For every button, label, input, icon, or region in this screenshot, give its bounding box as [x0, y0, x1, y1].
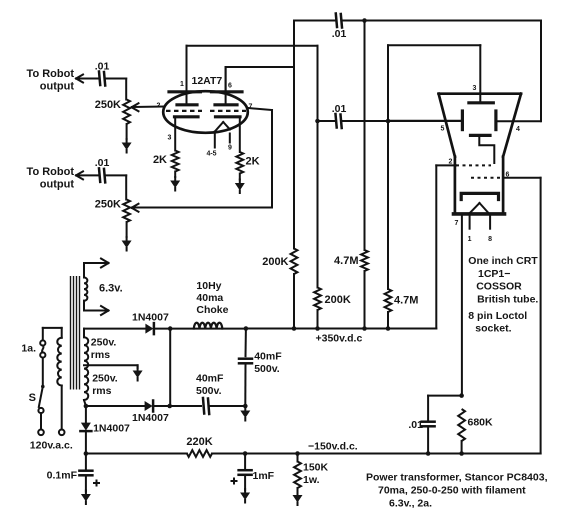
svg-text:1w.: 1w. — [303, 474, 320, 486]
wire junction to cap branch — [428, 396, 462, 422]
wire output to cap (upper) — [78, 78, 98, 80]
pin 6 label — [228, 83, 232, 90]
grid right triode (dashed) — [210, 110, 246, 112]
label 1a. (fuse) — [21, 343, 36, 355]
svg-text:200K: 200K — [325, 294, 351, 306]
svg-text:8 pin Loctol: 8 pin Loctol — [468, 310, 527, 322]
svg-text:3: 3 — [473, 85, 477, 92]
resistor 200K (x=317.5) — [314, 288, 321, 311]
label 4.7M (right of x388) — [394, 295, 418, 307]
svg-text:1a.: 1a. — [21, 343, 36, 355]
svg-text:4-5: 4-5 — [206, 151, 216, 158]
svg-text:250v.: 250v. — [92, 373, 118, 385]
svg-text:40ma: 40ma — [196, 292, 223, 304]
svg-text:0.1mF: 0.1mF — [47, 470, 78, 482]
label 1CP1- — [478, 268, 510, 280]
label 680K — [468, 417, 494, 429]
CRT pin 1 stub — [469, 216, 471, 229]
resistor 150K 1w — [294, 454, 301, 489]
svg-text:1CP1−: 1CP1− — [478, 268, 510, 280]
wire top bus y=20.5 — [294, 20, 541, 22]
wire cap to -150 rail — [427, 427, 429, 454]
svg-text:680K: 680K — [468, 417, 494, 429]
CRT first anode — [471, 135, 495, 163]
svg-text:4: 4 — [516, 126, 520, 133]
label .01 (top) — [332, 28, 347, 40]
arrow 6.3v bottom — [101, 306, 109, 315]
label 220K — [186, 436, 212, 448]
label 120v.a.c. — [30, 440, 73, 452]
svg-text:S: S — [29, 392, 36, 404]
pin 4-5 label — [206, 151, 216, 158]
svg-text:−150v.d.c.: −150v.d.c. — [308, 441, 358, 453]
label .01 (mid) — [332, 103, 347, 115]
svg-text:To Robot: To Robot — [27, 166, 75, 178]
pin 7 label — [249, 104, 253, 111]
note power transformer — [366, 472, 548, 510]
wire diode to choke — [155, 328, 194, 330]
wire 680K to rail — [461, 441, 463, 454]
CRT heater filament — [469, 203, 490, 214]
node junction (461.6,395.6) — [459, 393, 464, 398]
fuse 1a — [40, 328, 45, 358]
node junction (364.5,20.5) — [362, 18, 367, 23]
transformer primary winding — [57, 338, 61, 386]
diode 1N4007 third — [80, 406, 91, 431]
pin 2 label — [157, 103, 161, 110]
diode 1N4007 top — [145, 323, 154, 334]
cathode right triode — [216, 117, 241, 152]
wire vertical x=388 — [387, 45, 389, 289]
ground (filter common) — [240, 407, 250, 421]
svg-text:output: output — [40, 81, 75, 93]
label 2K right — [246, 156, 260, 168]
label 1N4007 (top diode) — [132, 312, 169, 324]
label 4.7M (left of x364) — [334, 255, 358, 267]
wire primary bottom — [61, 386, 63, 430]
label 2K left — [153, 154, 167, 166]
svg-text:2K: 2K — [246, 156, 260, 168]
label -150v.d.c. — [308, 441, 358, 453]
node junction (85.9,406) — [84, 404, 89, 409]
label .01 (lower left) — [95, 157, 110, 169]
wire 4.7M to +350 bus — [364, 271, 366, 329]
resistor 2K (right cathode) — [236, 152, 243, 174]
node junction (245.3,406) — [243, 404, 248, 409]
plate lead right triode — [215, 67, 237, 105]
arrow 6.3v top — [101, 259, 109, 268]
svg-text:.01: .01 — [332, 28, 347, 40]
svg-text:12AT7: 12AT7 — [192, 75, 223, 87]
CRT pin 2 label — [449, 159, 453, 166]
capacitor 40mF 500v (input filter) — [203, 398, 209, 414]
node bus junction x=317.5 — [315, 326, 320, 331]
label 8 pin Loctol — [468, 310, 527, 322]
wiper arrow (lower pot) — [132, 204, 139, 212]
svg-text:200K: 200K — [262, 256, 288, 268]
resistor 4.7M (x=388) — [385, 289, 392, 312]
wire 6.3v bottom lead — [84, 301, 106, 311]
wire -150 v.d.c. rail — [86, 453, 541, 455]
resistor 680K — [458, 409, 465, 441]
wire choke to bus — [222, 328, 246, 330]
ground (1mF) — [240, 489, 250, 503]
label 1N4007 (third diode) — [93, 423, 130, 435]
wire filter cap vertical x=245.5 — [245, 329, 247, 357]
wire wiper to grid pin 7 net — [133, 108, 272, 208]
wire 1mF to ground — [244, 475, 246, 490]
pin 9 label — [228, 145, 232, 152]
node junction (85.9,453.5) — [84, 451, 89, 456]
potentiometer 250K (upper) — [123, 100, 130, 125]
svg-text:1: 1 — [180, 81, 184, 88]
svg-text:output: output — [40, 179, 75, 191]
CRT pin 3 label — [473, 85, 477, 92]
label 1mF — [253, 470, 275, 482]
CRT pin 7 label — [455, 220, 459, 227]
label 10Hy 40ma Choke — [196, 280, 228, 316]
CRT grid pin 2 (dashed) — [456, 164, 491, 166]
CRT pin 5 label — [441, 126, 445, 133]
svg-text:.01: .01 — [95, 157, 110, 169]
svg-text:4.7M: 4.7M — [334, 255, 358, 267]
svg-text:One inch CRT: One inch CRT — [468, 255, 538, 267]
wire wiper to grid pin 2 — [133, 106, 164, 109]
svg-text:70ma, 250-0-250 with filament: 70ma, 250-0-250 with filament — [378, 485, 526, 497]
label 200K (right) — [325, 294, 351, 306]
wire 2K left to ground — [174, 172, 176, 178]
svg-text:socket.: socket. — [475, 323, 511, 335]
wire pot bottom (upper) — [126, 124, 128, 139]
label 6.3v. — [99, 283, 123, 295]
plate lead left triode — [177, 46, 197, 105]
label 250K (upper) — [95, 99, 121, 111]
wire fuse to switch — [42, 358, 44, 385]
potentiometer 250K (lower) — [123, 200, 130, 223]
label 200K (left) — [262, 256, 288, 268]
wire bottom diode line — [86, 405, 145, 407]
wire pot bottom (lower) — [126, 222, 128, 237]
label 1N4007 (bottom diode) — [132, 412, 169, 424]
wire left plate to node (y=45.7) — [187, 45, 318, 47]
svg-text:1: 1 — [468, 236, 472, 243]
transformer core — [71, 276, 80, 390]
svg-text:5: 5 — [441, 126, 445, 133]
wire 2K right to ground — [239, 174, 241, 180]
node junction (245.9,328.5) — [244, 326, 249, 331]
wire right rail x=540.6 down — [540, 178, 542, 454]
svg-text:150K: 150K — [303, 462, 329, 474]
wire to left deflection plate — [388, 120, 461, 122]
label British tube. — [477, 294, 538, 306]
node A junction (317.5,121) — [315, 119, 320, 124]
capacitor .01 (lower coupling) — [336, 114, 342, 128]
CRT left deflection plate (pin 5) — [461, 111, 464, 130]
node bus junction x=388 — [386, 326, 391, 331]
wire HV center tap — [84, 365, 138, 368]
svg-text:3: 3 — [168, 135, 172, 142]
wire HV top lead — [84, 329, 145, 338]
label One inch CRT — [468, 255, 538, 267]
svg-text:rms: rms — [92, 385, 111, 397]
label To Robot output (upper) — [27, 68, 75, 93]
pin 3 label — [168, 135, 172, 142]
wire rectifier common vertical — [169, 329, 171, 406]
wire 200K to bus (x=317.5) — [317, 310, 319, 329]
wire cap to pot top (lower) — [106, 175, 127, 199]
svg-text:rms: rms — [91, 349, 110, 361]
ground (center tap) — [133, 367, 143, 381]
wire cap to ground node — [244, 364, 246, 407]
wire vertical x=294 upper — [293, 21, 295, 249]
wiper arrow (upper pot) — [132, 103, 139, 111]
label 0.1mF — [47, 470, 78, 482]
svg-text:+350v.d.c: +350v.d.c — [316, 333, 363, 345]
resistor 4.7M (x=364.5) — [361, 250, 368, 271]
svg-text:6.3v., 2a.: 6.3v., 2a. — [389, 498, 432, 510]
node junction (169.7,406) — [167, 404, 172, 409]
svg-text:.01: .01 — [408, 419, 423, 431]
svg-text:2K: 2K — [153, 154, 167, 166]
svg-text:British tube.: British tube. — [477, 294, 538, 306]
label socket. — [475, 323, 511, 335]
arrow output terminal (lower) — [76, 171, 83, 179]
resistor 220K — [187, 450, 212, 457]
capacitor 40mF 500v (output filter) — [239, 359, 252, 364]
label 12AT7 — [192, 75, 223, 87]
inductor choke — [194, 323, 223, 329]
arrow output terminal (upper) — [76, 75, 83, 83]
wire 200K to bus (x=294) — [293, 274, 295, 329]
wire primary top — [43, 328, 62, 338]
wire y=45.2 to CRT anode — [388, 44, 480, 46]
label S — [29, 392, 36, 404]
CRT cathode — [461, 193, 498, 199]
CRT pin 8 label — [488, 236, 492, 243]
label 40mF 500v (series cap) — [196, 373, 224, 398]
transformer 6.3v winding — [84, 278, 87, 301]
wire diode to input cap — [154, 405, 201, 407]
ground (lower pot) — [122, 237, 132, 251]
label +350v.d.c — [316, 333, 363, 345]
CRT pin 6 label — [506, 172, 510, 179]
ground (upper pot) — [122, 139, 132, 153]
node bus junction x=364.5 — [362, 326, 367, 331]
label 250K (lower) — [95, 199, 121, 211]
CRT pin 4 label — [516, 126, 520, 133]
svg-text:.01: .01 — [332, 103, 347, 115]
wire rail to 0.1mF cap — [85, 454, 87, 471]
CRT pin 8 stub — [489, 216, 491, 229]
wire right deflection plate — [497, 120, 541, 122]
node rail junction (245.1,453.5) — [243, 451, 248, 456]
label To Robot output (lower) — [27, 166, 75, 191]
svg-text:1N4007: 1N4007 — [132, 312, 169, 324]
switch S — [38, 385, 44, 413]
svg-text:500v.: 500v. — [196, 385, 222, 397]
terminal circle right — [59, 430, 65, 436]
wire 1mF branch — [244, 454, 246, 471]
label 150K 1w. — [303, 462, 329, 487]
wire y=121 coupling — [318, 120, 461, 122]
svg-text:COSSOR: COSSOR — [476, 281, 522, 293]
CRT grid pin 6 (dashed) — [471, 177, 502, 179]
ground (right 2K) — [235, 180, 245, 194]
svg-text:2: 2 — [157, 103, 161, 110]
wire 4.7M to bus (x=388) — [387, 312, 389, 329]
grid left triode (dashed) — [166, 110, 202, 112]
wire vertical x=364.5 — [364, 21, 366, 251]
wire third diode to rail — [85, 431, 87, 453]
svg-text:7: 7 — [249, 104, 253, 111]
svg-text:500v.: 500v. — [254, 363, 280, 375]
wire grid 2 to +350 bus — [436, 165, 456, 328]
resistor 200K (x=294) — [291, 249, 298, 275]
pin 1 label — [180, 81, 184, 88]
plate bar left triode — [169, 90, 200, 93]
wire switch to terminal — [40, 413, 42, 429]
capacitor .01 (lower robot coupling) — [99, 168, 105, 182]
transformer 250-0-250 winding — [84, 337, 88, 400]
svg-text:4.7M: 4.7M — [394, 295, 418, 307]
heater filament 12AT7 — [215, 122, 230, 148]
CRT funnel envelope — [439, 94, 521, 214]
wire top bus down right side — [540, 21, 542, 122]
node bus junction x=294 — [292, 326, 297, 331]
svg-text:6.3v.: 6.3v. — [99, 283, 123, 295]
svg-text:7: 7 — [455, 220, 459, 227]
wire grid 6 to right rail — [503, 177, 540, 179]
node B junction (388,121) — [386, 119, 391, 124]
svg-text:9: 9 — [228, 145, 232, 152]
capacitor .01 (cathode) — [422, 422, 435, 427]
plate bar right triode — [212, 90, 243, 93]
cathode left triode — [175, 117, 199, 151]
svg-text:8: 8 — [488, 236, 492, 243]
wire 6.3v top lead — [84, 263, 106, 278]
svg-text:To Robot: To Robot — [27, 68, 75, 80]
capacitor .01 (top coupling) — [336, 14, 342, 28]
resistor 2K (left cathode) — [172, 151, 179, 172]
label .01 (cathode) — [408, 419, 423, 431]
CRT right deflection plate (pin 4) — [494, 111, 497, 130]
svg-text:40mF: 40mF — [254, 351, 282, 363]
svg-text:Choke: Choke — [196, 304, 228, 316]
svg-text:6: 6 — [228, 83, 232, 90]
svg-text:1N4007: 1N4007 — [132, 412, 169, 424]
node rail junction x=461.6 — [459, 451, 464, 456]
polarity mark 0.1mF — [94, 481, 99, 486]
CRT anode pin 3 lead — [469, 45, 493, 103]
label .01 (upper left) — [95, 61, 110, 73]
capacitor 1mF — [239, 470, 252, 475]
diode 1N4007 bottom — [145, 401, 154, 412]
svg-text:1N4007: 1N4007 — [93, 423, 130, 435]
wire 0.1mF to ground — [85, 476, 87, 492]
wire 150K to ground — [297, 488, 299, 493]
svg-text:.01: .01 — [95, 61, 110, 73]
wire output to cap (lower) — [78, 174, 98, 176]
tube envelope U1 12AT7 — [163, 91, 248, 133]
svg-text:220K: 220K — [186, 436, 212, 448]
wire vertical x=317.5 — [317, 46, 319, 288]
svg-text:250K: 250K — [95, 199, 121, 211]
polarity mark 1mF — [232, 479, 237, 484]
node rail junction x=428.1 — [426, 451, 431, 456]
ground (0.1mF) — [81, 491, 91, 505]
node rail junction (297.5,453.5) — [295, 451, 300, 456]
ground (left 2K) — [170, 177, 180, 191]
wire +350 v.d.c. bus — [246, 328, 436, 330]
capacitor .01 (upper robot coupling) — [99, 72, 105, 86]
svg-text:120v.a.c.: 120v.a.c. — [30, 440, 73, 452]
svg-text:40mF: 40mF — [196, 373, 224, 385]
svg-text:10Hy: 10Hy — [196, 280, 221, 292]
label 40mF 500v (right cap) — [254, 351, 282, 376]
svg-text:Power transformer, Stancor PC8: Power transformer, Stancor PC8403, — [366, 472, 548, 484]
svg-text:1mF: 1mF — [253, 470, 275, 482]
svg-text:250v.: 250v. — [91, 337, 117, 349]
node junction (170.2,328.6) — [168, 326, 173, 331]
CRT pin 1 label — [468, 236, 472, 243]
wire cap to ground node 2 — [210, 405, 245, 407]
label 250v. rms (lower) — [92, 373, 118, 398]
terminal circle left — [38, 430, 44, 436]
ground (150K) — [293, 492, 303, 506]
wire right plate riser — [226, 67, 294, 92]
capacitor 0.1mF — [79, 471, 92, 476]
svg-text:250K: 250K — [95, 99, 121, 111]
label 250v. rms (upper) — [91, 337, 117, 362]
wire cap to pot top (upper) — [106, 79, 127, 100]
CRT pin 7 cathode lead — [461, 215, 463, 396]
label COSSOR — [476, 281, 522, 293]
wire HV bottom lead — [84, 400, 86, 406]
